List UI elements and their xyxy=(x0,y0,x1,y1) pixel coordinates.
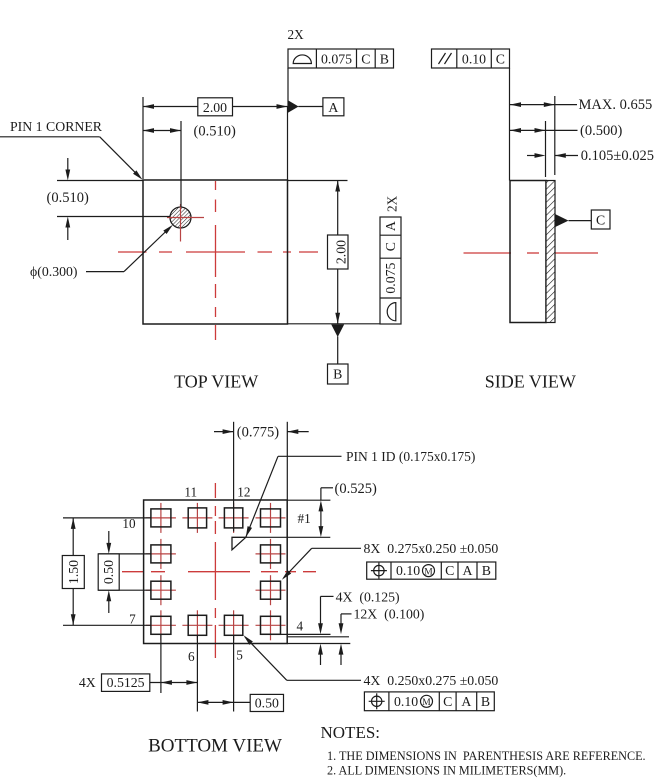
svg-text:1.50: 1.50 xyxy=(66,560,81,584)
svg-text:6: 6 xyxy=(188,649,195,664)
svg-text:(0.500): (0.500) xyxy=(580,123,622,139)
svg-text:PIN 1 ID (0.175x0.175): PIN 1 ID (0.175x0.175) xyxy=(346,449,475,464)
svg-text:(0.510): (0.510) xyxy=(47,190,89,206)
svg-text:12X (0.100): 12X (0.100) xyxy=(354,607,425,623)
svg-text:C: C xyxy=(496,51,505,66)
svg-text:2. ALL DIMENSIONS IN MILIMETER: 2. ALL DIMENSIONS IN MILIMETERS(MM). xyxy=(327,764,566,778)
svg-text:8X 0.275x0.250 ±0.050: 8X 0.275x0.250 ±0.050 xyxy=(364,541,499,556)
svg-text:4X (0.125): 4X (0.125) xyxy=(336,590,400,606)
svg-text:1. THE DIMENSIONS IN PARENTHE: 1. THE DIMENSIONS IN PARENTHESIS ARE REF… xyxy=(327,749,646,763)
svg-text:0.10: 0.10 xyxy=(394,694,418,709)
svg-text:4X: 4X xyxy=(79,675,96,690)
svg-text:0.50: 0.50 xyxy=(255,695,279,710)
svg-text:0.10: 0.10 xyxy=(396,563,420,578)
svg-text:4X 0.250x0.275 ±0.050: 4X 0.250x0.275 ±0.050 xyxy=(364,673,499,688)
svg-text:4: 4 xyxy=(297,619,304,634)
svg-text:ϕ(0.300): ϕ(0.300) xyxy=(30,264,78,280)
svg-text:7: 7 xyxy=(129,612,136,627)
svg-text:2.00: 2.00 xyxy=(333,240,348,264)
svg-text:0.105±0.025: 0.105±0.025 xyxy=(581,148,654,164)
svg-text:11: 11 xyxy=(184,485,197,500)
svg-text:(0.510): (0.510) xyxy=(194,124,236,140)
svg-text:SIDE VIEW: SIDE VIEW xyxy=(485,372,576,392)
svg-text:(0.775): (0.775) xyxy=(237,424,279,440)
svg-text:2.00: 2.00 xyxy=(203,100,227,115)
svg-text:M: M xyxy=(422,698,431,708)
svg-text:0.075: 0.075 xyxy=(383,262,398,293)
svg-text:PIN 1 CORNER: PIN 1 CORNER xyxy=(10,119,103,134)
svg-text:C: C xyxy=(596,213,605,228)
svg-text:0.075: 0.075 xyxy=(321,51,352,66)
svg-text:0.50: 0.50 xyxy=(101,560,116,584)
svg-text:BOTTOM VIEW: BOTTOM VIEW xyxy=(148,736,282,757)
svg-text:5: 5 xyxy=(236,648,243,663)
svg-text:M: M xyxy=(424,567,433,577)
svg-text:0.5125: 0.5125 xyxy=(107,675,145,690)
svg-text:A: A xyxy=(463,563,473,578)
svg-text:A: A xyxy=(461,694,471,709)
svg-text:C: C xyxy=(445,563,454,578)
svg-text:C: C xyxy=(443,694,452,709)
svg-text:NOTES:: NOTES: xyxy=(321,723,381,742)
svg-text:B: B xyxy=(333,367,342,382)
svg-text:A: A xyxy=(383,221,398,231)
svg-text:C: C xyxy=(383,242,398,251)
svg-text:2X: 2X xyxy=(288,27,305,42)
svg-text:TOP VIEW: TOP VIEW xyxy=(174,372,258,392)
svg-text:C: C xyxy=(361,51,370,66)
svg-text:12: 12 xyxy=(237,485,250,500)
svg-text:2X: 2X xyxy=(385,195,400,212)
svg-text:#1: #1 xyxy=(298,511,311,526)
svg-text:MAX. 0.655: MAX. 0.655 xyxy=(579,97,653,113)
svg-text:B: B xyxy=(482,563,491,578)
svg-text:B: B xyxy=(481,694,490,709)
svg-text:A: A xyxy=(328,100,338,115)
svg-text:0.10: 0.10 xyxy=(462,51,486,66)
svg-text:(0.525): (0.525) xyxy=(335,481,377,497)
svg-text:B: B xyxy=(380,51,389,66)
